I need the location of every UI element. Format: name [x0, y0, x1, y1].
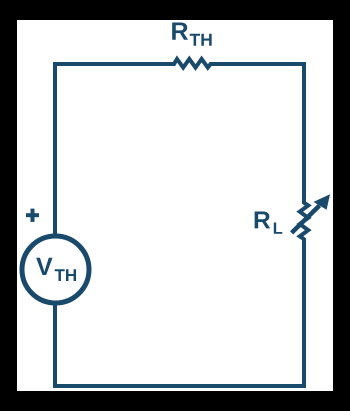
voltage source V_TH (circle)	[22, 236, 89, 303]
wire: right side (above and below R_L)	[302, 62, 306, 388]
label V_TH	[36, 258, 76, 281]
variable load resistor R_L (zigzag)	[300, 203, 309, 239]
label R_L	[255, 212, 283, 234]
polarity plus mark	[26, 209, 39, 222]
resistor R_TH (zigzag)	[174, 59, 211, 68]
wiper arrow across R_L	[292, 194, 330, 233]
label R_TH	[172, 23, 211, 46]
wire: bottom side	[53, 384, 306, 388]
wire: left side (above and below V_TH source)	[53, 62, 57, 388]
wire: top side (left and right of R_TH)	[55, 62, 304, 66]
